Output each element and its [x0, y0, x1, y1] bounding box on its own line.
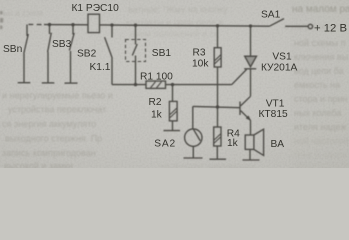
svg-text:1k: 1k	[227, 138, 239, 149]
pushbutton SB2	[65, 25, 78, 83]
svg-text:SBn: SBn	[3, 44, 22, 55]
junction: rail / R3	[216, 24, 219, 27]
SBn contact blade	[24, 34, 29, 54]
wire: K1.1 top stub	[111, 25, 113, 37]
svg-text:ьн а схем: ьн а схем	[3, 8, 43, 18]
wire: K1.1 bottom lead to node A	[111, 58, 113, 85]
wire: top rail dashed start segment	[29, 23, 45, 25]
wire: SB3 top stub	[49, 25, 51, 34]
svg-text:на выходе динамическ: на выходе динамическ	[160, 162, 255, 169]
svg-text:ватные: "Жму на кнопку: ватные: "Жму на кнопку	[128, 5, 228, 15]
relay coil K1	[88, 14, 100, 32]
SA2 rotary switch circle	[185, 129, 202, 146]
junction: gate wire / R2	[171, 83, 174, 86]
wire: SB2 top stub	[72, 25, 74, 35]
svg-text:нием положений в сх: нием положений в сх	[130, 29, 219, 39]
svg-text:высокой и замкн: высокой и замкн	[4, 161, 73, 168]
resistor R3 body	[214, 48, 221, 67]
wire: R4 top lead	[217, 107, 219, 127]
svg-text:ных колеба: ных колеба	[294, 108, 341, 118]
svg-text:10k: 10k	[192, 59, 209, 70]
ground chassis bar under R4	[210, 158, 227, 160]
svg-text:выходного стержня. Пр: выходного стержня. Пр	[5, 134, 102, 144]
dark page-edge fragments top-left	[0, 11, 3, 29]
wire: SA2 top lead to base node	[192, 106, 194, 128]
SB3 contact blade	[48, 33, 52, 52]
resistor R3	[214, 26, 221, 107]
wire: SA2 bottom lead	[192, 146, 194, 157]
svg-text:R3: R3	[193, 48, 206, 59]
svg-text:ключения вы: ключения вы	[294, 52, 348, 62]
pushbutton SB3	[42, 25, 55, 83]
relay contact K1.1	[105, 25, 113, 85]
VT1 emitter stroke	[241, 111, 251, 121]
svg-text:R1 100: R1 100	[140, 71, 173, 82]
svg-text:SA2: SA2	[154, 139, 176, 150]
wire: BA bottom lead	[249, 149, 251, 159]
wire: gate wire from R1 to slant	[166, 84, 232, 86]
switch SA1	[270, 19, 313, 29]
svg-text:на малом расс: на малом расс	[292, 4, 349, 15]
VT1 emitter arrowhead	[246, 116, 250, 120]
ground chassis bar under SA2	[184, 157, 203, 159]
svg-text:вод цепи ба: вод цепи ба	[294, 66, 344, 76]
svg-text:ной частотой: ной частотой	[294, 136, 349, 146]
wire: R3 bottom lead crossing gate wire down to base node	[217, 67, 219, 107]
speaker BA	[243, 129, 264, 160]
svg-text:1k: 1k	[151, 110, 163, 121]
junction: base wire / R3 / R4	[216, 105, 219, 108]
junction: rail / K1.1	[110, 23, 113, 26]
svg-text:SB1: SB1	[152, 48, 172, 59]
svg-text:+ 12 В: + 12 В	[314, 23, 347, 35]
wire: gate slant to VS1	[232, 69, 247, 84]
switch SA2	[184, 106, 203, 158]
svg-text:КТ815: КТ815	[259, 109, 288, 120]
junction: rail / SB1	[134, 24, 137, 27]
ground chassis bar under R2	[164, 130, 181, 132]
wire: gate wire from K1.1 to R1	[112, 84, 146, 86]
VT1 base bar	[239, 102, 241, 116]
wire: base wire from SA2 corner to VT1 base	[193, 106, 240, 107]
wire: R4 bottom lead	[216, 146, 218, 159]
junction: rail / SB3	[48, 23, 51, 26]
pushbutton SB1 with dashed enclosure	[126, 25, 146, 84]
svg-text:ителя надеж: ителя надеж	[294, 122, 347, 132]
svg-text:запись компригодован: запись компригодован	[2, 148, 96, 158]
resistor R2	[164, 85, 181, 131]
junction: rail / SB2	[71, 23, 74, 26]
SB1 contact blade	[132, 44, 137, 56]
wire: top rail left of relay	[44, 24, 88, 26]
wire: SB3 bottom lead	[47, 52, 49, 83]
svg-text:и нерегулируемые пьезо и: и нерегулируемые пьезо и	[2, 91, 113, 101]
wire: top rail from relay to SA1	[100, 25, 270, 26]
wire: SBn bottom lead	[23, 54, 25, 83]
svg-text:устройства переключат: устройства переключат	[8, 105, 106, 115]
K1.1 contact blade	[105, 37, 113, 58]
pushbutton SBn	[18, 24, 31, 82]
wire: SB1 bottom lead to node A	[135, 56, 137, 85]
ground chassis bar under SB3	[42, 82, 55, 84]
wire: SB2 bottom lead	[70, 51, 72, 83]
SA2 switch lever	[193, 129, 200, 141]
SA1 switch blade	[270, 19, 285, 27]
resistor R1 body	[146, 81, 166, 88]
wire: R3 top lead from rail	[217, 26, 219, 48]
svg-text:ся энергия аккумулято: ся энергия аккумулято	[2, 119, 96, 129]
BA speaker body box	[245, 135, 254, 149]
resistor R4 body	[214, 127, 221, 146]
resistor R2 body	[169, 101, 177, 121]
VT1 collector stroke	[241, 96, 251, 106]
resistor R4	[210, 107, 227, 159]
VS1 anode triangle	[245, 56, 257, 67]
svg-text:КУ201А: КУ201А	[261, 63, 298, 74]
BA speaker horn	[254, 129, 264, 155]
junction: node A / SB1 bottom	[134, 83, 137, 86]
wire: VT1 emitter lead to speaker	[250, 120, 252, 135]
svg-text:тока и напря: тока и напря	[294, 150, 347, 160]
SB2 contact blade	[69, 33, 74, 51]
svg-text:емкость на: емкость на	[294, 80, 340, 90]
wire: R2 top lead	[172, 85, 174, 101]
ground chassis bar under SB2	[65, 82, 78, 84]
svg-text:K1.1: K1.1	[90, 62, 111, 73]
wire: SBn top stub	[26, 24, 28, 36]
wire: SB1 top stub	[135, 25, 137, 44]
svg-text:К1 РЭС10: К1 РЭС10	[72, 3, 120, 14]
+12V supply terminal circle	[308, 24, 312, 28]
wire: from SA1 to supply terminal	[285, 25, 308, 27]
VS1 cathode bar	[244, 68, 256, 70]
svg-text:VS1: VS1	[272, 52, 292, 63]
svg-text:BA: BA	[271, 139, 285, 150]
SB1 dashed housing box	[126, 40, 146, 62]
ground chassis bar under BA	[243, 159, 260, 161]
wire: R2 bottom lead	[172, 121, 174, 130]
svg-text:стора и прин: стора и прин	[294, 94, 347, 104]
junction: rail / VS1 anode	[249, 24, 252, 27]
bleed-through text background	[2, 4, 349, 172]
svg-text:ной схемы п: ной схемы п	[294, 38, 346, 48]
svg-text:SA1: SA1	[261, 9, 281, 20]
thyristor VS1	[244, 26, 256, 96]
wire: VS1 cathode lead to VT1 collector	[250, 69, 252, 97]
wire: VS1 anode lead from rail	[250, 26, 252, 57]
svg-text:SB2: SB2	[77, 48, 97, 59]
svg-text:SB3: SB3	[52, 39, 72, 50]
svg-text:мощности пр: мощности пр	[296, 160, 349, 168]
transistor VT1	[240, 96, 251, 135]
ground chassis bar under SBn	[18, 82, 31, 84]
svg-text:R2: R2	[149, 97, 162, 108]
